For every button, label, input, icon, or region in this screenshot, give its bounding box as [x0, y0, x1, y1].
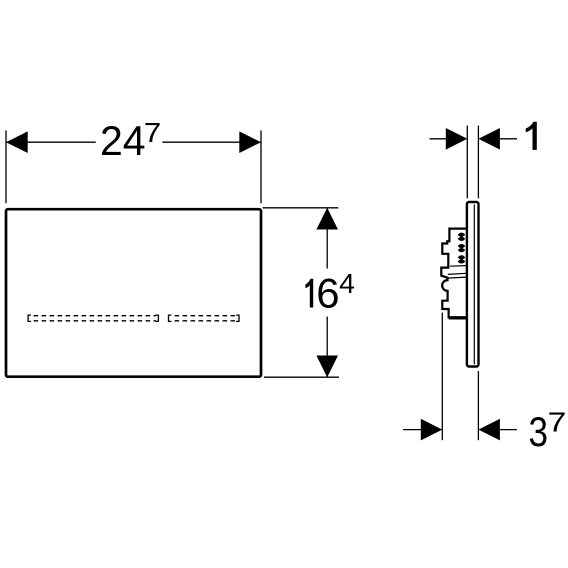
thickness dimension 1: extension lines: [466, 126, 468, 199]
width dimension arrow right: [239, 131, 261, 153]
svg-text:7: 7: [548, 407, 567, 438]
side view: housing inner line upper: [450, 265, 467, 268]
thickness dimension 1: leader line left: [430, 138, 447, 140]
side view: screw 1: [457, 233, 465, 241]
svg-text:7: 7: [144, 117, 162, 148]
front plate outline: [6, 209, 261, 377]
depth dimension 37: leader line right: [500, 429, 517, 431]
width dimension label 247: [96, 127, 163, 158]
side view: plate cross-section: [467, 202, 479, 367]
side view: screw 2: [457, 244, 465, 252]
height dimension arrow down: [316, 356, 338, 378]
side view: mechanism housing outline: [441, 229, 467, 318]
depth dimension arrow right (points left): [478, 419, 500, 441]
thickness dimension label 1: [526, 122, 537, 150]
height dimension label 164: [302, 269, 356, 317]
thickness dimension arrow right (points left): [478, 128, 500, 150]
depth dimension arrow left (points right): [421, 419, 443, 441]
width dimension 247: dimension line: [6, 141, 261, 143]
side view: housing bottom edge: [449, 317, 467, 319]
svg-text:3: 3: [529, 408, 549, 455]
width dimension 247: extension lines: [5, 130, 7, 203]
side view: screw 3: [457, 255, 465, 263]
depth dimension 37: extension lines: [441, 313, 443, 441]
height dimension 164: extension lines: [263, 207, 339, 209]
side view: housing inner line middle 2: [448, 277, 467, 278]
svg-text:6: 6: [316, 270, 339, 317]
depth dimension 37: leader line left: [403, 429, 421, 431]
svg-text:24: 24: [100, 117, 146, 164]
side view: plate inner face line: [473, 205, 475, 365]
thickness dimension arrow left (points right): [446, 128, 468, 150]
side view: housing inner line middle 1: [448, 273, 467, 274]
height dimension 164: dimension line: [326, 208, 328, 377]
flush slot left (dashed): [28, 315, 158, 321]
svg-text:4: 4: [339, 268, 355, 299]
thickness dimension 1: leader line right: [500, 138, 517, 140]
flush slot right (dashed): [169, 315, 240, 321]
width dimension arrow left: [6, 131, 28, 153]
height dimension arrow up: [316, 208, 338, 230]
